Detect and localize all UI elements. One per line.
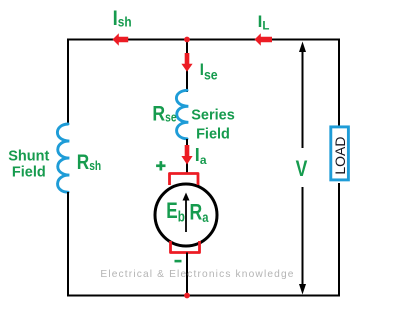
brush top (red bracket) — [170, 174, 199, 186]
label - polarity — [175, 260, 182, 263]
load box — [331, 127, 349, 180]
arrow Ish current (red, pointing left on top wire) — [113, 33, 129, 45]
svg-text:LOAD: LOAD — [332, 137, 348, 175]
wire left lower — [67, 192, 69, 297]
svg-text:Series: Series — [191, 107, 235, 123]
arrow Ia current (red, pointing down) — [181, 145, 192, 165]
label + polarity — [156, 161, 165, 170]
svg-text:Electrical & Electronics knowl: Electrical & Electronics knowledge — [100, 269, 294, 280]
inductor Rsh shunt field coil — [57, 124, 69, 192]
svg-text:Eb: Eb — [166, 199, 185, 225]
armature back-emf arrow (up, inside motor) — [185, 199, 187, 232]
brush bottom (red bracket) — [171, 241, 200, 253]
wire left upper — [67, 39, 69, 126]
wire center branch upper (junction to series field) — [186, 40, 188, 93]
svg-text:Rse: Rse — [152, 102, 176, 126]
svg-text:Rsh: Rsh — [77, 151, 101, 174]
junction node bottom (red dot) — [184, 293, 190, 299]
voltage arrow up (black) — [302, 50, 304, 148]
svg-text:Ra: Ra — [190, 201, 210, 226]
svg-text:Ish: Ish — [113, 7, 132, 30]
wire motor to bottom junction — [186, 253, 188, 297]
wire top (node A to node B) — [68, 39, 339, 41]
svg-text:Shunt: Shunt — [8, 148, 49, 164]
arrow IL current (red, pointing left on top wire) — [255, 33, 273, 45]
wire right lower — [338, 183, 340, 297]
wire bottom — [67, 295, 340, 297]
svg-text:V: V — [296, 157, 308, 181]
svg-text:Ia: Ia — [195, 145, 207, 167]
arrow Ise current (red, pointing down) — [181, 53, 192, 72]
inductor Rse series field coil — [176, 90, 188, 139]
voltage arrow down (black) — [302, 187, 304, 286]
junction node top (red dot) — [184, 37, 190, 43]
svg-text:Field: Field — [196, 126, 230, 142]
wire series field to motor — [186, 139, 188, 173]
svg-text:Ise: Ise — [200, 61, 218, 82]
svg-text:IL: IL — [258, 12, 270, 33]
motor armature circle M1 — [155, 184, 217, 246]
wire right upper — [338, 39, 340, 128]
svg-text:Field: Field — [12, 165, 46, 181]
